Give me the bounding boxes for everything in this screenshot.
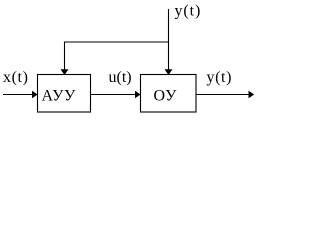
svg-text:y(t): y(t) — [175, 3, 202, 20]
svg-text:АУУ: АУУ — [42, 88, 76, 105]
svg-text:x(t): x(t) — [3, 69, 29, 86]
svg-text:u(t): u(t) — [109, 69, 132, 86]
svg-text:y(t): y(t) — [207, 69, 233, 86]
svg-text:ОУ: ОУ — [154, 87, 178, 104]
